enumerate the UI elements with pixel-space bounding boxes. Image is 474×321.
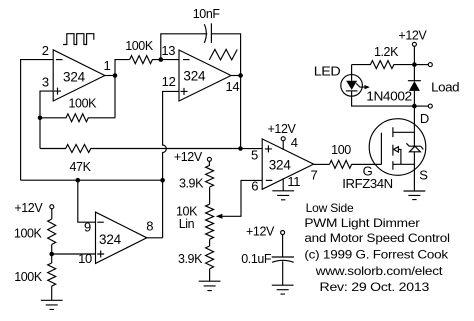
U1d minus sign [183,59,190,61]
wire pin2 to left rail [21,60,54,181]
U1a plus sign [54,88,61,95]
junction 47K / node14 line / pin5 [238,146,243,151]
resistor 100K upper divider [48,219,56,244]
wire to pin 5 [241,148,263,150]
wire op4 output to gate resistor [314,163,330,165]
node at bottom rail / pin12 line [160,178,165,183]
svg-text:324: 324 [269,158,292,173]
svg-text:and Motor Speed Control: and Motor Speed Control [304,231,449,245]
svg-text:324: 324 [183,68,206,83]
wire to ground [209,269,211,281]
svg-text:100K: 100K [14,270,43,284]
op-amp U1 section B (pins 5,6,7) [262,139,313,189]
svg-text:100K: 100K [14,226,43,240]
wire pin10 to divider [52,253,96,255]
svg-text:324: 324 [63,69,86,84]
svg-text:S: S [419,167,428,182]
svg-text:+12V: +12V [14,201,43,215]
ground divider [41,300,63,309]
svg-text:www.solorb.com/elect: www.solorb.com/elect [315,264,444,278]
U1a minus sign [56,59,63,61]
wire cap to ground [282,261,284,285]
svg-text:11: 11 [287,174,300,189]
svg-text:7: 7 [311,168,318,183]
resistor 100K lower divider [48,263,56,286]
svg-text:+12V: +12V [398,28,427,42]
wire to cap [282,235,284,258]
wire to ground [51,286,53,300]
node 14 output junction [238,73,243,78]
wire terminal to R [51,209,53,219]
wire junction to load terminal bottom [414,105,428,107]
junction load bottom [412,104,417,109]
wire junction to load terminal top [414,64,428,66]
svg-text:2: 2 [42,43,49,58]
pin4 terminal [281,137,285,141]
svg-text:10nF: 10nF [193,7,221,21]
svg-text:+12V: +12V [268,122,297,136]
svg-text:10: 10 [78,251,92,266]
svg-text:+12V: +12V [174,150,203,164]
node 1 junction [113,73,118,78]
diode 1N4002 [408,80,421,82]
junction pin3/100K/47K [38,116,43,121]
svg-text:3.9K: 3.9K [178,252,203,266]
U1b plus sign [265,145,272,152]
junction top rail [412,62,417,67]
Q1 top stub [393,131,415,133]
ground pot [199,281,221,290]
load terminal bottom [428,104,432,108]
capacitor C2 0.1uF straight plate [272,256,294,258]
wire op2 output apex to node14 [231,75,241,77]
wire 1.2K left down to LED [351,65,353,81]
capacitor C2 curved plate [272,260,294,262]
svg-text:1.2K: 1.2K [374,45,399,59]
svg-text:PWM Light Dimmer: PWM Light Dimmer [304,216,420,230]
svg-text:100: 100 [331,143,351,157]
wire bottom reference rail [21,179,163,181]
U1c minus sign [97,221,104,223]
svg-text:13: 13 [161,43,175,58]
pot +12V terminal [207,157,211,161]
wire down to rail junction [413,46,415,64]
+12V top right terminal [412,42,416,46]
resistor 100 gate [330,160,382,168]
svg-text:Low Side: Low Side [306,201,355,215]
Q1 body diode [406,143,423,152]
svg-text:D: D [420,111,429,126]
svg-text:100K: 100K [69,96,98,110]
resistor 1.2K [352,61,415,69]
svg-text:Load: Load [431,80,459,94]
wire diode anode to junction [413,65,415,107]
wire pin6 to pot wiper [222,180,263,216]
wire drain down [413,106,415,132]
Q1 channel dashes [392,127,394,170]
resistor 47K [40,145,241,153]
svg-text:+12V: +12V [246,224,275,238]
svg-text:324: 324 [99,232,122,247]
LED circle [341,75,363,97]
resistor 3.9K bottom [206,246,214,269]
wire to midpoint [51,245,53,264]
triangle wave icon [209,49,237,60]
pin4 stub [282,141,284,150]
svg-text:0.1uF: 0.1uF [241,252,272,266]
svg-text:47K: 47K [69,160,91,174]
wire op3 output to pin12 line [147,237,163,239]
svg-text:Lin: Lin [179,217,195,231]
wire node13 up to cap [161,34,208,60]
LED cathode bar [346,90,358,92]
LED triangle [346,81,357,90]
svg-text:1N4002: 1N4002 [366,89,412,103]
svg-text:LED: LED [314,64,341,78]
wire pin12 down with hop over 47K [163,91,179,237]
resistor 3.9K top [206,165,214,187]
wire fb resistor up to node 1 [114,76,116,118]
wire pin3 [40,91,53,118]
Q1 middle stub with arrow [398,149,401,164]
ground cap [272,285,294,294]
resistor 100K to integrator [130,56,161,64]
wire pot to 3.9K bottom [209,239,211,246]
svg-text:4: 4 [291,135,298,150]
potentiometer 10K Lin [206,204,214,239]
svg-text:5: 5 [251,147,258,162]
wire to 3.9K [208,161,210,166]
load terminal top [428,63,432,67]
wire to pot [209,187,211,204]
U1b minus sign [266,179,273,181]
ground source [404,191,426,200]
resistor R feedback 100K [40,114,115,122]
Q1 gate bar [380,133,382,165]
pot wiper arrow [216,214,223,219]
U1d plus sign [181,88,188,95]
svg-text:Rev: 29 Oct. 2013: Rev: 29 Oct. 2013 [320,280,430,294]
svg-text:12: 12 [162,74,176,89]
wire cap to node 14 [211,34,240,76]
wire pin9 up to bottom rail [78,180,96,222]
svg-text:100K: 100K [125,39,154,53]
square wave icon [63,34,94,45]
pin11 ground stub [282,178,284,191]
svg-text:(c) 1999 G. Forrest Cook: (c) 1999 G. Forrest Cook [304,247,448,261]
op-amp U1 section D (pins 13,12,14) [179,50,231,101]
wire node13 to op2 pin13 [161,59,179,61]
svg-text:1: 1 [104,58,111,73]
wire down to 47K [39,118,41,149]
LED emission arrow [356,83,364,87]
capacitor C1 straight plate [210,23,212,43]
0.1uF terminal [281,231,285,235]
op-amp U1 section A (pins 2,3,1) [53,50,105,101]
op-amp U1 section C (pins 9,10,8) [96,212,147,263]
wire node1 up to 100K [115,60,130,76]
divider midpoint junction [49,252,54,257]
junction bottom rail pin9 [76,178,81,183]
svg-text:3.9K: 3.9K [179,177,204,191]
capacitor C1 10nF curved plate [204,24,206,43]
svg-text:3: 3 [42,74,49,89]
Q1 gate wire [352,163,382,165]
Q1 drain-source internal wire [413,132,415,191]
svg-text:IRFZ34N: IRFZ34N [342,177,393,191]
MOSFET Q1 circle [369,119,426,176]
node 13 junction [159,57,164,62]
wire LED bottom [352,91,415,106]
ground op4 [272,191,294,200]
svg-text:8: 8 [146,219,153,234]
svg-text:14: 14 [225,79,239,94]
Q1 bottom stub [393,163,415,165]
U1c plus sign [97,251,104,258]
wire node14 down to pin5 junction [240,76,242,149]
wire op1 output to node [105,75,115,77]
